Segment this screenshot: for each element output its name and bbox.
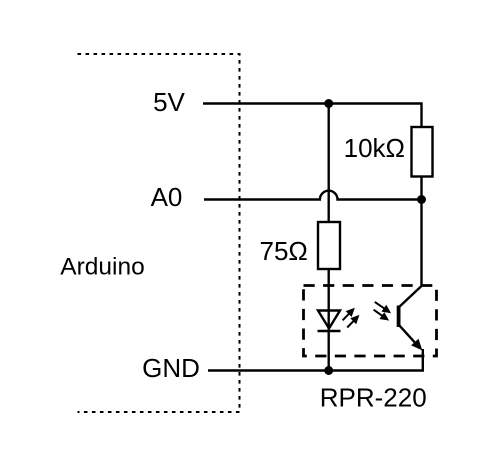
- svg-text:5V: 5V: [153, 87, 185, 117]
- svg-text:75Ω: 75Ω: [260, 236, 308, 266]
- svg-text:GND: GND: [142, 353, 200, 383]
- svg-text:A0: A0: [151, 182, 183, 212]
- svg-text:RPR-220: RPR-220: [320, 383, 427, 413]
- svg-text:10kΩ: 10kΩ: [344, 133, 405, 163]
- svg-text:Arduino: Arduino: [60, 254, 144, 281]
